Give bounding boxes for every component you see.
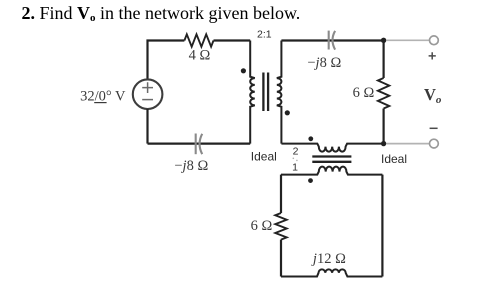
svg-text:Vo: Vo	[424, 85, 442, 106]
wire: loop3 bottom with inductor L1 j12ohm	[281, 269, 382, 276]
polarity dot T1 secondary	[285, 110, 290, 115]
svg-text:2:1: 2:1	[257, 29, 272, 41]
transformer T1 secondary winding (right) with loop2 left wire	[277, 41, 282, 144]
voltage source plus sign	[142, 82, 153, 93]
wire: loop2 right bottom segment	[383, 109, 385, 144]
wire: loop3 left top segment	[280, 175, 282, 213]
svg-text:1: 1	[292, 161, 298, 173]
voltage source V1 circle	[133, 79, 163, 109]
wire: loop1 bottom	[148, 143, 251, 145]
wire: gray lead to top output terminal	[387, 39, 430, 41]
voltage source minus sign	[142, 99, 153, 101]
plus sign at output	[429, 52, 436, 59]
wire: loop3 left bottom segment	[280, 240, 282, 277]
underline of angle notation	[94, 102, 106, 104]
svg-text:4 Ω: 4 Ω	[189, 47, 211, 63]
terminal: top output open circle	[430, 36, 439, 45]
wire: loop3 top with transformer T2 bottom winding	[281, 167, 382, 175]
node dot bottom-right	[381, 141, 386, 146]
svg-text:Ideal: Ideal	[381, 152, 407, 166]
wire: loop1 left bottom segment	[146, 109, 148, 144]
polarity dot T2 bottom	[308, 178, 313, 183]
wire: loop1 top-right segment	[214, 39, 251, 41]
minus sign at output	[430, 127, 438, 129]
wire: gray lead to bottom output terminal	[387, 143, 430, 145]
transformer T2 core lines	[312, 157, 351, 162]
svg-text:6 Ω: 6 Ω	[353, 85, 375, 101]
wire: loop2 right top segment	[383, 41, 385, 79]
svg-text:Ideal: Ideal	[251, 150, 277, 164]
wire: loop2 bottom with transformer T2 top winding	[281, 144, 383, 152]
wire: loop2 top	[281, 39, 383, 41]
polarity dot T1 primary	[241, 68, 246, 73]
resistor R3 6ohm zigzag	[275, 213, 286, 240]
resistor R1 4ohm zigzag	[184, 34, 213, 46]
polarity dot T2 top	[308, 136, 313, 141]
tick dots between turns labels	[293, 158, 295, 160]
transformer T1 core lines	[263, 73, 268, 112]
wire: loop1 top-left segment	[148, 41, 185, 80]
capacitor C2 -j8ohm curved plate	[333, 31, 336, 50]
terminal: bottom output open circle	[430, 139, 439, 148]
svg-text:2: 2	[293, 146, 299, 158]
node dot top-right	[381, 38, 386, 43]
svg-text:−j8 Ω: −j8 Ω	[307, 55, 341, 71]
svg-text:j12 Ω: j12 Ω	[311, 251, 346, 267]
capacitor C1 -j8ohm straight plate	[195, 134, 197, 155]
svg-text:6 Ω: 6 Ω	[251, 218, 273, 234]
wire: loop3 right	[381, 175, 383, 277]
capacitor C2 -j8ohm straight plate	[328, 31, 330, 50]
resistor R2 6ohm zigzag	[378, 78, 389, 109]
svg-text:−j8 Ω: −j8 Ω	[174, 158, 208, 174]
capacitor C1 -j8ohm curved plate	[200, 134, 203, 154]
transformer T1 primary winding (left) with loop1 right wire	[250, 41, 255, 144]
